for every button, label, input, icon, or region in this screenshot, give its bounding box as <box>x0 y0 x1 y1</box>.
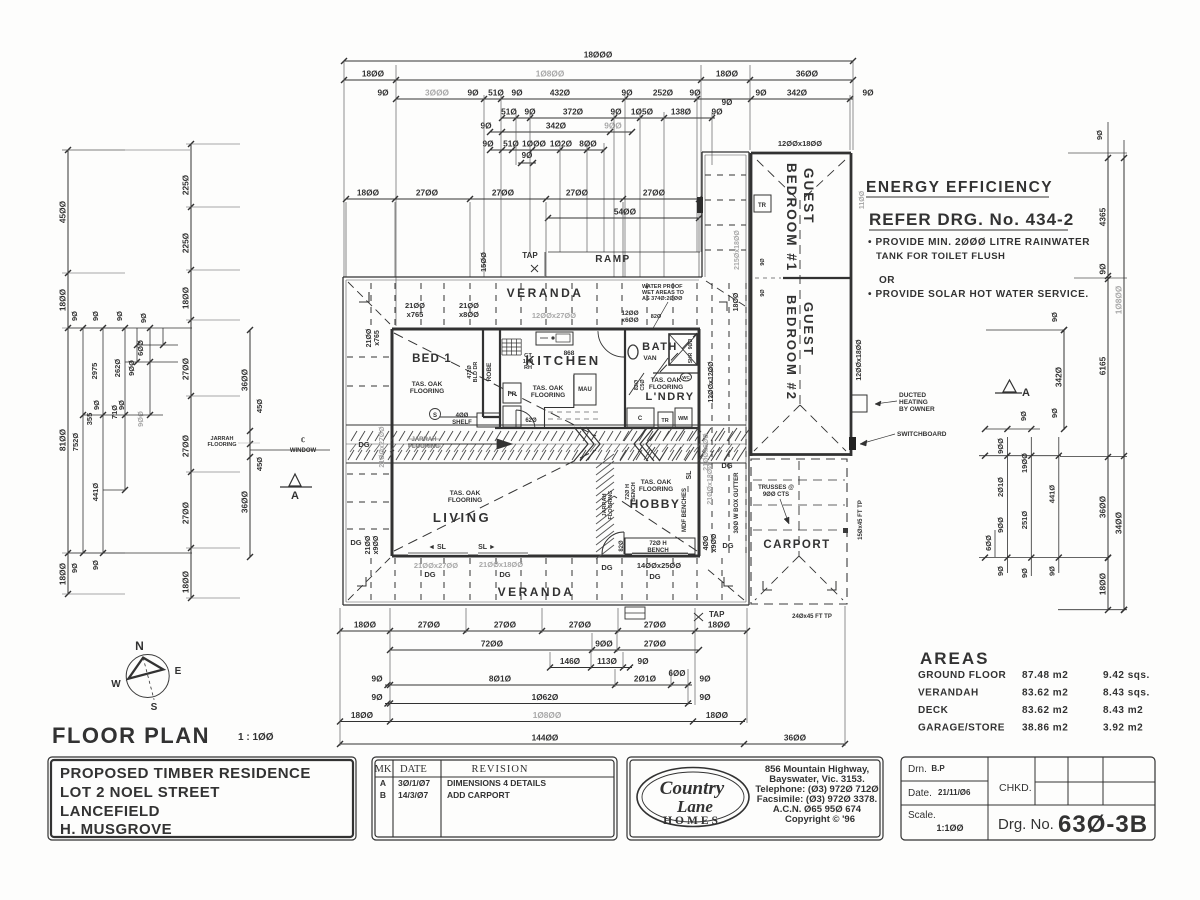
svg-text:9Ø: 9Ø <box>511 88 523 98</box>
svg-text:21ØØ: 21ØØ <box>365 535 372 554</box>
svg-text:15Øx45 FT TP: 15Øx45 FT TP <box>858 500 864 540</box>
svg-text:TAS. OAK: TAS. OAK <box>651 377 682 384</box>
svg-text:9Ø: 9Ø <box>117 400 126 410</box>
svg-text:BLD DR: BLD DR <box>473 362 479 383</box>
svg-text:9Ø: 9Ø <box>1050 312 1059 322</box>
svg-text:4365: 4365 <box>1098 207 1108 226</box>
svg-text:9ØØ CTS: 9ØØ CTS <box>763 492 789 498</box>
svg-text:BEDROOM #1: BEDROOM #1 <box>784 163 799 272</box>
svg-text:Copyright © '96: Copyright © '96 <box>785 814 855 825</box>
svg-text:9ØØ: 9ØØ <box>688 339 694 350</box>
svg-text:21ØØx27ØØ: 21ØØx27ØØ <box>414 561 458 570</box>
svg-text:FLOORING: FLOORING <box>649 384 683 391</box>
svg-text:B: B <box>380 790 386 800</box>
svg-text:TAP: TAP <box>522 251 538 260</box>
svg-text:REVISION: REVISION <box>472 764 529 775</box>
svg-text:N: N <box>135 639 144 653</box>
svg-text:12ØØx27ØØ: 12ØØx27ØØ <box>532 311 576 320</box>
svg-text:Scale.: Scale. <box>908 810 936 821</box>
svg-text:18ØØØ: 18ØØØ <box>584 50 613 60</box>
svg-text:215Øx18ØØ: 215Øx18ØØ <box>734 230 741 270</box>
svg-text:27ØØ: 27ØØ <box>181 357 191 380</box>
svg-text:x9ØØ: x9ØØ <box>373 535 380 554</box>
svg-text:LOT 2 NOEL STREET: LOT 2 NOEL STREET <box>60 784 220 801</box>
svg-text:1ØØØ: 1ØØØ <box>522 139 547 149</box>
svg-text:342Ø: 342Ø <box>546 121 567 131</box>
svg-text:81ØØ: 81ØØ <box>58 428 68 451</box>
svg-text:BENCH: BENCH <box>631 482 637 502</box>
svg-text:27ØØ: 27ØØ <box>418 620 441 630</box>
svg-text:9Ø: 9Ø <box>480 121 492 131</box>
svg-text:ENERGY EFFICIENCY: ENERGY EFFICIENCY <box>866 179 1053 196</box>
svg-text:27ØØ: 27ØØ <box>569 620 592 630</box>
svg-text:REFER DRG. No. 434-2: REFER DRG. No. 434-2 <box>869 210 1074 229</box>
svg-text:12ØØx18ØØ: 12ØØx18ØØ <box>778 139 822 148</box>
svg-text:WM: WM <box>678 416 688 422</box>
svg-text:9Ø: 9Ø <box>139 313 148 323</box>
svg-text:A: A <box>291 490 299 502</box>
svg-text:2Ø1Ø: 2Ø1Ø <box>634 674 657 684</box>
svg-text:AREAS: AREAS <box>920 649 990 668</box>
svg-text:E: E <box>175 666 182 677</box>
svg-text:ℂ: ℂ <box>301 437 305 444</box>
svg-text:82Ø: 82Ø <box>651 314 662 320</box>
svg-text:FLOORING: FLOORING <box>207 442 236 448</box>
svg-text:x765: x765 <box>407 310 424 319</box>
svg-text:9Ø: 9Ø <box>92 400 101 410</box>
svg-text:9Ø: 9Ø <box>467 88 479 98</box>
svg-text:3ØØ W BOX GUTTER: 3ØØ W BOX GUTTER <box>734 472 740 534</box>
svg-text:S: S <box>151 702 158 713</box>
svg-text:HEATING: HEATING <box>899 399 928 406</box>
svg-text:45ØØ: 45ØØ <box>58 200 68 223</box>
svg-text:262Ø: 262Ø <box>113 359 122 378</box>
svg-text:34ØØ: 34ØØ <box>1114 511 1124 534</box>
svg-text:225Ø: 225Ø <box>181 174 191 195</box>
svg-text:4ØØ: 4ØØ <box>703 535 710 550</box>
svg-text:1Ø8ØØ: 1Ø8ØØ <box>1114 285 1124 314</box>
svg-text:1Ø62Ø: 1Ø62Ø <box>532 692 559 702</box>
svg-text:18ØØ: 18ØØ <box>1098 572 1108 595</box>
svg-text:1Ø8ØØ: 1Ø8ØØ <box>533 710 562 720</box>
svg-text:441Ø: 441Ø <box>91 483 100 502</box>
svg-text:W: W <box>111 679 121 690</box>
svg-text:18ØØ: 18ØØ <box>58 288 68 311</box>
svg-text:18ØØ: 18ØØ <box>362 69 385 79</box>
svg-text:Country: Country <box>660 778 725 799</box>
svg-text:19ØØ: 19ØØ <box>1020 453 1029 473</box>
svg-text:TRUSSES @: TRUSSES @ <box>758 485 794 491</box>
svg-text:JARRAH: JARRAH <box>411 437 436 443</box>
svg-text:TAP: TAP <box>709 610 725 619</box>
svg-text:LANCEFIELD: LANCEFIELD <box>60 803 160 820</box>
svg-text:AS 374Ø:2ØØØ: AS 374Ø:2ØØØ <box>642 296 683 302</box>
svg-text:1 : 1ØØ: 1 : 1ØØ <box>238 732 274 743</box>
svg-text:Drg. No.: Drg. No. <box>998 816 1054 833</box>
svg-text:146Ø: 146Ø <box>560 656 581 666</box>
svg-text:Lane: Lane <box>676 797 713 816</box>
svg-text:72Ø H: 72Ø H <box>649 541 666 547</box>
svg-text:FR: FR <box>508 391 517 398</box>
svg-text:12ØØ: 12ØØ <box>621 310 638 317</box>
svg-text:TAS. OAK: TAS. OAK <box>412 381 443 388</box>
svg-text:225Ø: 225Ø <box>181 232 191 253</box>
svg-text:21ØØx18ØØ: 21ØØx18ØØ <box>479 560 523 569</box>
svg-text:DG: DG <box>721 461 732 470</box>
svg-text:83.62 m2: 83.62 m2 <box>1022 688 1068 699</box>
svg-text:HOBBY: HOBBY <box>630 497 681 511</box>
svg-text:PROPOSED TIMBER RESIDENCE: PROPOSED TIMBER RESIDENCE <box>60 765 311 782</box>
svg-text:8.43 m2: 8.43 m2 <box>1103 705 1143 716</box>
svg-text:9Ø: 9Ø <box>996 566 1005 576</box>
svg-text:TAS. OAK: TAS. OAK <box>450 490 481 497</box>
svg-text:BATH: BATH <box>642 341 678 353</box>
svg-text:MAU: MAU <box>578 387 592 393</box>
svg-text:TR: TR <box>758 203 767 209</box>
svg-text:36ØØ: 36ØØ <box>796 69 819 79</box>
svg-text:9Ø: 9Ø <box>70 311 79 321</box>
svg-text:9Ø: 9Ø <box>1020 568 1029 578</box>
svg-text:18ØØ: 18ØØ <box>351 710 374 720</box>
svg-text:27ØØ: 27ØØ <box>566 188 589 198</box>
svg-text:36ØØ: 36ØØ <box>1098 495 1108 518</box>
svg-text:9Ø: 9Ø <box>699 692 711 702</box>
svg-text:21ØØx18ØØ: 21ØØx18ØØ <box>707 463 714 505</box>
svg-text:Date.: Date. <box>908 788 932 799</box>
svg-text:18ØØ: 18ØØ <box>354 620 377 630</box>
svg-text:1Ø8ØØ: 1Ø8ØØ <box>536 69 565 79</box>
svg-text:L'NDRY: L'NDRY <box>645 391 694 403</box>
svg-text:9Ø: 9Ø <box>1019 411 1028 421</box>
svg-text:ROBE: ROBE <box>486 362 493 381</box>
svg-text:RAMP: RAMP <box>595 254 630 265</box>
svg-text:H. MUSGROVE: H. MUSGROVE <box>60 821 172 838</box>
svg-text:36ØØ: 36ØØ <box>240 490 250 513</box>
svg-text:2975: 2975 <box>90 363 99 380</box>
svg-text:SHELF: SHELF <box>452 420 472 426</box>
svg-text:MK: MK <box>375 764 392 775</box>
svg-text:DECK: DECK <box>918 705 949 716</box>
svg-text:18ØØ: 18ØØ <box>708 620 731 630</box>
svg-text:9Ø: 9Ø <box>1050 408 1059 418</box>
svg-text:8ØØ: 8ØØ <box>579 139 597 149</box>
svg-text:HOMES: HOMES <box>663 815 721 827</box>
svg-text:SL ►: SL ► <box>478 544 496 551</box>
svg-text:VERANDAH: VERANDAH <box>918 688 979 699</box>
svg-text:9Ø: 9Ø <box>371 692 383 702</box>
svg-text:9ØØ: 9ØØ <box>604 121 622 131</box>
svg-text:1Ø5Ø: 1Ø5Ø <box>631 107 654 117</box>
svg-text:DG: DG <box>722 541 733 550</box>
svg-text:x6ØØ: x6ØØ <box>621 317 638 324</box>
svg-text:VERANDA: VERANDA <box>507 286 584 300</box>
svg-text:FLOORING: FLOORING <box>531 392 565 399</box>
svg-text:C: C <box>638 416 643 422</box>
svg-text:x765: x765 <box>374 330 381 346</box>
svg-text:9Ø: 9Ø <box>115 311 124 321</box>
svg-text:21ØØ: 21ØØ <box>459 301 479 310</box>
svg-text:DG: DG <box>350 538 361 547</box>
svg-text:38.86 m2: 38.86 m2 <box>1022 723 1068 734</box>
svg-text:83.62 m2: 83.62 m2 <box>1022 705 1068 716</box>
svg-text:372Ø: 372Ø <box>563 107 584 117</box>
svg-text:9Ø: 9Ø <box>1098 263 1108 275</box>
svg-text:9Ø: 9Ø <box>862 88 874 98</box>
svg-text:45Ø: 45Ø <box>255 457 264 471</box>
svg-text:27ØØ: 27ØØ <box>644 639 667 649</box>
svg-text:3Ø/1/Ø7: 3Ø/1/Ø7 <box>398 778 430 788</box>
svg-text:342Ø: 342Ø <box>787 88 808 98</box>
svg-text:18ØØ: 18ØØ <box>733 292 740 311</box>
svg-text:FLOOR PLAN: FLOOR PLAN <box>52 723 210 748</box>
svg-text:S: S <box>433 413 437 419</box>
svg-text:KITCHEN: KITCHEN <box>525 353 600 368</box>
svg-text:18ØØ: 18ØØ <box>706 710 729 720</box>
svg-text:VERANDA: VERANDA <box>498 585 575 599</box>
svg-text:MDF BENCHES: MDF BENCHES <box>682 488 688 532</box>
svg-text:4ØØ: 4ØØ <box>456 413 469 419</box>
svg-text:27ØØ: 27ØØ <box>416 188 439 198</box>
svg-text:Drn.: Drn. <box>908 764 927 775</box>
svg-text:6ØØ: 6ØØ <box>984 535 993 551</box>
svg-text:9Ø: 9Ø <box>637 656 649 666</box>
svg-text:9ØØ: 9ØØ <box>136 411 145 427</box>
svg-text:12ØØx12ØØ: 12ØØx12ØØ <box>708 361 715 403</box>
svg-text:CHKD.: CHKD. <box>999 782 1032 794</box>
svg-text:27ØØ: 27ØØ <box>494 620 517 630</box>
svg-text:1Ø2Ø: 1Ø2Ø <box>550 139 573 149</box>
svg-text:9.42 sqs.: 9.42 sqs. <box>1103 670 1150 681</box>
svg-text:752Ø: 752Ø <box>71 433 80 452</box>
svg-text:GARAGE/STORE: GARAGE/STORE <box>918 723 1005 734</box>
svg-text:WC: WC <box>682 375 690 380</box>
svg-text:9Ø: 9Ø <box>1095 130 1104 140</box>
svg-text:87.48 m2: 87.48 m2 <box>1022 670 1068 681</box>
svg-text:18ØØ: 18ØØ <box>716 69 739 79</box>
svg-text:1:1ØØ: 1:1ØØ <box>936 823 963 833</box>
svg-text:9Ø: 9Ø <box>760 258 766 266</box>
svg-text:14ØØx25ØØ: 14ØØx25ØØ <box>637 561 681 570</box>
svg-text:18ØØ: 18ØØ <box>181 570 191 593</box>
svg-text:9Ø: 9Ø <box>91 560 100 570</box>
svg-text:8Ø1Ø: 8Ø1Ø <box>489 674 512 684</box>
svg-text:9ØØ: 9ØØ <box>595 639 613 649</box>
svg-text:x8ØØ: x8ØØ <box>459 310 479 319</box>
svg-text:CARPORT: CARPORT <box>763 539 830 551</box>
svg-text:12ØØx18ØØ: 12ØØx18ØØ <box>856 339 863 381</box>
svg-text:GUEST: GUEST <box>801 302 816 357</box>
svg-text:27ØØ: 27ØØ <box>492 188 515 198</box>
svg-text:TR: TR <box>661 418 668 424</box>
svg-text:45Ø: 45Ø <box>255 399 264 413</box>
svg-text:2Ø1Ø: 2Ø1Ø <box>996 477 1005 497</box>
svg-text:TANK FOR TOILET FLUSH: TANK FOR TOILET FLUSH <box>876 251 1005 262</box>
svg-text:27ØØ: 27ØØ <box>181 501 191 524</box>
svg-text:TAS. OAK: TAS. OAK <box>533 385 564 392</box>
svg-text:◄ SL: ◄ SL <box>428 544 447 551</box>
svg-text:BEDROOM #2: BEDROOM #2 <box>784 295 799 401</box>
svg-text:8.43 sqs.: 8.43 sqs. <box>1103 688 1150 699</box>
svg-text:x9ØØ: x9ØØ <box>711 533 718 552</box>
svg-text:18ØØ: 18ØØ <box>357 188 380 198</box>
svg-text:138Ø: 138Ø <box>671 107 692 117</box>
svg-text:9Ø: 9Ø <box>610 107 622 117</box>
svg-text:27ØØ: 27ØØ <box>644 620 667 630</box>
svg-text:441Ø: 441Ø <box>1047 485 1056 504</box>
svg-text:SWITCHBOARD: SWITCHBOARD <box>897 431 947 438</box>
svg-text:9Ø: 9Ø <box>522 151 533 160</box>
svg-text:51Ø: 51Ø <box>503 139 519 149</box>
svg-text:252Ø: 252Ø <box>653 88 674 98</box>
svg-text:18ØØ: 18ØØ <box>58 562 68 585</box>
svg-text:OR: OR <box>879 275 895 286</box>
svg-text:21ØØ: 21ØØ <box>366 328 373 347</box>
svg-text:FLOORING: FLOORING <box>448 497 482 504</box>
svg-text:9Ø: 9Ø <box>722 98 733 107</box>
svg-text:A: A <box>380 778 386 788</box>
svg-text:3.92 m2: 3.92 m2 <box>1103 723 1143 734</box>
svg-text:9Ø: 9Ø <box>760 289 766 297</box>
svg-text:DG: DG <box>358 440 369 449</box>
svg-text:11ØØ: 11ØØ <box>859 190 866 209</box>
svg-text:SL: SL <box>686 470 693 480</box>
svg-text:3ØØØ: 3ØØØ <box>425 88 450 98</box>
svg-text:36ØØ: 36ØØ <box>784 733 807 743</box>
svg-text:WINDOW: WINDOW <box>290 448 317 454</box>
svg-text:9Ø: 9Ø <box>70 563 79 573</box>
svg-text:A: A <box>1022 387 1030 399</box>
svg-text:14/3/Ø7: 14/3/Ø7 <box>398 790 429 800</box>
svg-text:FLOORING: FLOORING <box>408 444 440 450</box>
svg-text:DATE: DATE <box>400 764 427 775</box>
svg-text:TAS. OAK: TAS. OAK <box>641 479 672 486</box>
svg-text:9ØØ: 9ØØ <box>996 438 1005 454</box>
svg-text:18ØØ: 18ØØ <box>181 286 191 309</box>
svg-text:144ØØ: 144ØØ <box>532 733 559 743</box>
svg-text:36ØØ: 36ØØ <box>240 368 250 391</box>
svg-text:21ØØx27ØØ: 21ØØx27ØØ <box>379 426 386 468</box>
svg-text:DIMENSIONS 4 DETAILS: DIMENSIONS 4 DETAILS <box>447 778 546 788</box>
svg-text:• PROVIDE MIN. 2ØØØ LITRE RAIN: • PROVIDE MIN. 2ØØØ LITRE RAINWATER <box>868 237 1090 248</box>
svg-text:342Ø: 342Ø <box>1054 366 1064 387</box>
svg-text:• PROVIDE SOLAR HOT WATER SERV: • PROVIDE SOLAR HOT WATER SERVICE. <box>868 289 1089 300</box>
svg-text:9Ø: 9Ø <box>371 674 383 684</box>
svg-text:24Øx45 FT TP: 24Øx45 FT TP <box>792 614 832 620</box>
svg-text:9Ø: 9Ø <box>755 88 767 98</box>
svg-text:DG: DG <box>649 572 660 581</box>
svg-text:LIVING: LIVING <box>433 510 491 525</box>
svg-text:54ØØ: 54ØØ <box>614 207 637 217</box>
svg-text:251Ø: 251Ø <box>1020 511 1029 530</box>
svg-text:9Ø: 9Ø <box>1047 566 1056 576</box>
svg-text:15ØØ: 15ØØ <box>479 252 488 272</box>
svg-text:62Ø: 62Ø <box>525 418 537 424</box>
svg-text:GROUND FLOOR: GROUND FLOOR <box>918 670 1006 681</box>
svg-text:51Ø: 51Ø <box>501 107 517 117</box>
svg-text:82Ø: 82Ø <box>619 540 625 552</box>
svg-text:63Ø-3B: 63Ø-3B <box>1058 811 1148 838</box>
svg-text:27ØØ: 27ØØ <box>643 188 666 198</box>
svg-text:6ØØ: 6ØØ <box>136 340 145 356</box>
svg-text:VAN: VAN <box>643 355 657 362</box>
svg-text:21/11/Ø6: 21/11/Ø6 <box>938 788 971 797</box>
svg-text:9ØØ: 9ØØ <box>996 517 1005 533</box>
svg-text:9Ø: 9Ø <box>699 674 711 684</box>
svg-text:BED 1: BED 1 <box>412 353 452 365</box>
svg-text:21ØØ: 21ØØ <box>405 301 425 310</box>
svg-text:C5Ø: C5Ø <box>640 379 646 391</box>
svg-text:BY OWNER: BY OWNER <box>899 406 935 413</box>
svg-text:9Ø: 9Ø <box>689 88 701 98</box>
svg-text:DG: DG <box>499 570 510 579</box>
svg-text:113Ø: 113Ø <box>597 656 617 666</box>
svg-text:DG: DG <box>601 563 612 572</box>
svg-text:51Ø: 51Ø <box>488 88 504 98</box>
svg-text:FLOORING: FLOORING <box>639 486 673 493</box>
svg-text:72ØØ: 72ØØ <box>481 639 504 649</box>
svg-text:9Ø: 9Ø <box>711 107 723 117</box>
svg-text:9Ø: 9Ø <box>377 88 389 98</box>
svg-text:GUEST: GUEST <box>801 168 816 225</box>
svg-text:DG: DG <box>424 570 435 579</box>
svg-text:9Ø: 9Ø <box>91 311 100 321</box>
svg-text:B.P: B.P <box>931 764 945 773</box>
svg-text:FLOORING: FLOORING <box>410 388 444 395</box>
svg-text:6165: 6165 <box>1098 356 1108 375</box>
svg-text:ADD CARPORT: ADD CARPORT <box>447 790 511 800</box>
svg-text:FLOORING: FLOORING <box>608 490 614 519</box>
svg-text:27ØØ: 27ØØ <box>181 434 191 457</box>
svg-text:9Ø: 9Ø <box>621 88 633 98</box>
svg-text:432Ø: 432Ø <box>550 88 571 98</box>
svg-text:SHR: SHR <box>688 352 694 363</box>
svg-text:DUCTED: DUCTED <box>899 392 926 399</box>
